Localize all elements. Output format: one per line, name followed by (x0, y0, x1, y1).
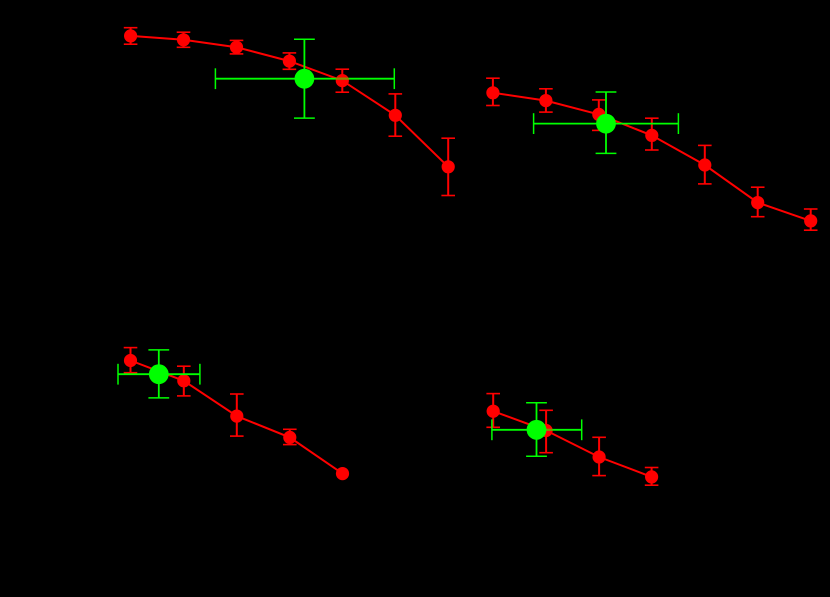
top-right point 4 error bar (645, 118, 659, 150)
bottom-right point 1 marker (487, 405, 500, 418)
bottom-left point 4 error bar (283, 429, 297, 444)
top-right point 6 marker (751, 196, 764, 209)
bottom-left point 1 marker (124, 354, 137, 367)
top-right point 2 marker (539, 94, 552, 107)
BL green vertical error bar (148, 350, 169, 398)
top-left point 2 error bar (177, 32, 191, 47)
top-left point 6 marker (389, 109, 402, 122)
top-left point 3 marker (230, 41, 243, 54)
TR green horizontal error bar (534, 113, 679, 134)
top-left point 4 error bar (283, 53, 297, 69)
top-right point 1 error bar (486, 78, 500, 105)
top-left red graph polyline (131, 36, 449, 167)
bottom-left point 1 error bar (124, 348, 138, 373)
TR green marker (596, 114, 616, 134)
bottom-right point 3 error bar (592, 437, 606, 475)
top-right point 5 marker (698, 158, 711, 171)
top-right point 1 marker (486, 86, 499, 99)
top-right point 5 error bar (698, 145, 712, 184)
top-left point 1 error bar (124, 28, 138, 45)
top-left point 5 marker (336, 74, 349, 87)
bottom-right red graph polyline (493, 411, 651, 477)
top-right point 6 error bar (751, 187, 765, 217)
top-right point 2 error bar (539, 89, 553, 112)
bottom-right point 2 error bar (539, 410, 553, 452)
top-left point 7 error bar (441, 138, 455, 195)
bottom-left point 4 marker (283, 431, 296, 444)
bottom-right point 4 error bar (645, 468, 659, 486)
bottom-left point 5 marker (336, 467, 349, 480)
top-right point 7 error bar (804, 209, 818, 230)
top-right point 4 marker (645, 129, 658, 142)
top-left point 2 marker (177, 33, 190, 46)
top-right red graph polyline (493, 93, 811, 221)
top-left point 3 error bar (230, 40, 244, 54)
BL green marker (149, 364, 169, 384)
top-right point 7 marker (804, 214, 817, 227)
top-right point 3 marker (592, 108, 605, 121)
bottom-left point 2 error bar (177, 366, 191, 396)
bottom-right point 2 marker (540, 424, 553, 437)
TR green vertical error bar (596, 92, 617, 153)
top-right point 3 error bar (592, 100, 606, 130)
TL green horizontal error bar (215, 68, 394, 89)
TL green marker (295, 69, 315, 89)
BL green horizontal error bar (118, 364, 200, 385)
bottom-left point 2 marker (177, 374, 190, 387)
bottom-right point 3 marker (593, 450, 606, 463)
BR green bar blend over point 2 marker (546, 429, 552, 431)
BR green horizontal error bar (492, 419, 582, 440)
BR green vertical error bar (526, 403, 547, 457)
bottom-right point 1 error bar (486, 394, 500, 428)
BR green marker (527, 420, 547, 440)
top-left point 5 error bar (336, 69, 350, 92)
TL green bar blend over point 5 marker (336, 78, 349, 80)
bottom-left point 3 marker (230, 410, 243, 423)
bottom-left red graph polyline (131, 361, 343, 474)
bottom-right point 4 marker (645, 470, 658, 483)
top-left point 4 marker (283, 55, 296, 68)
top-left point 7 marker (442, 160, 455, 173)
top-left point 1 marker (124, 29, 137, 42)
TL green vertical error bar (294, 39, 315, 118)
top-left point 6 error bar (389, 94, 403, 136)
bottom-left point 3 error bar (230, 394, 244, 436)
